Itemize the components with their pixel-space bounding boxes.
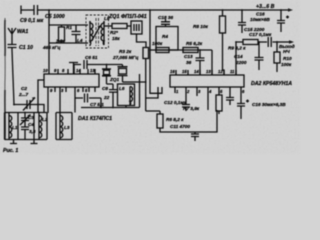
svg-text:13: 13 <box>206 69 211 74</box>
svg-text:L1: L1 <box>12 125 18 130</box>
svg-text:L6: L6 <box>119 86 125 91</box>
svg-text:С13: С13 <box>184 54 193 59</box>
svg-text:С14: С14 <box>234 54 243 59</box>
svg-text:WA1: WA1 <box>17 29 28 35</box>
svg-text:R5 6,2к: R5 6,2к <box>186 41 203 46</box>
svg-text:L4: L4 <box>77 38 83 43</box>
svg-text:С16 30мк×6,3В: С16 30мк×6,3В <box>252 102 286 107</box>
svg-text:ZQ1: ZQ1 <box>109 77 120 82</box>
svg-text:R8 10к: R8 10к <box>193 24 209 29</box>
svg-text:С8: С8 <box>102 86 108 91</box>
svg-text:R4: R4 <box>162 34 168 39</box>
svg-text:С7 5,1: С7 5,1 <box>90 102 104 107</box>
svg-text:15: 15 <box>182 69 187 74</box>
svg-text:С2: С2 <box>21 86 27 91</box>
svg-text:С11 4700: С11 4700 <box>170 124 190 129</box>
svg-text:R3 2к: R3 2к <box>119 49 132 54</box>
svg-text:100к: 100к <box>152 41 163 46</box>
svg-text:С16: С16 <box>256 12 265 17</box>
svg-text:13: 13 <box>90 68 95 73</box>
svg-text:R10: R10 <box>283 56 292 61</box>
svg-text:DA2 КР548УН1А: DA2 КР548УН1А <box>251 81 292 87</box>
svg-text:R9 8,2 к: R9 8,2 к <box>228 46 246 51</box>
svg-text:С9 0,1 мк: С9 0,1 мк <box>20 18 44 24</box>
svg-text:R1: R1 <box>66 25 72 30</box>
svg-text:DA1 К174ПС1: DA1 К174ПС1 <box>78 116 112 122</box>
svg-text:С18 36: С18 36 <box>158 15 174 20</box>
svg-text:С3: С3 <box>28 115 34 120</box>
svg-text:10мк×6В: 10мк×6В <box>250 17 270 22</box>
svg-text:С1 10: С1 10 <box>19 45 33 51</box>
svg-text:10: 10 <box>43 68 48 73</box>
svg-text:18к: 18к <box>112 36 120 41</box>
svg-text:465 кГц: 465 кГц <box>42 45 60 50</box>
svg-text:36: 36 <box>186 60 192 65</box>
svg-text:100к: 100к <box>281 62 292 67</box>
svg-text:НЧ: НЧ <box>283 49 290 54</box>
svg-text:12: 12 <box>218 69 223 74</box>
svg-text:14: 14 <box>194 69 199 74</box>
svg-text:2...7: 2...7 <box>18 92 29 97</box>
svg-text:ZQ1 ФП1П-041: ZQ1 ФП1П-041 <box>108 14 147 20</box>
svg-text:R7 3,9к: R7 3,9к <box>183 106 200 111</box>
svg-text:16: 16 <box>170 69 175 74</box>
svg-text:27,085 МГц: 27,085 МГц <box>112 55 138 60</box>
svg-text:С6 51: С6 51 <box>85 55 98 60</box>
svg-text:С12 0,1мк: С12 0,1мк <box>164 100 187 105</box>
svg-text:R6 8,2 к: R6 8,2 к <box>166 117 184 122</box>
svg-text:2200: 2200 <box>235 60 247 65</box>
svg-text:3,3: 3,3 <box>29 129 36 134</box>
svg-text:22: 22 <box>103 95 110 100</box>
svg-text:3,9к: 3,9к <box>56 39 66 44</box>
svg-text:11: 11 <box>230 69 235 74</box>
svg-text:L2: L2 <box>42 117 48 122</box>
svg-text:С5 1000: С5 1000 <box>45 14 65 20</box>
svg-text:+3...6 В: +3...6 В <box>256 4 275 10</box>
svg-text:Рис. 1: Рис. 1 <box>3 148 18 154</box>
svg-text:С17 0,1мк: С17 0,1мк <box>249 32 272 37</box>
svg-text:L3: L3 <box>64 125 70 130</box>
svg-text:14: 14 <box>76 68 81 73</box>
svg-text:R2*: R2* <box>110 30 118 35</box>
svg-text:С4: С4 <box>28 122 34 127</box>
